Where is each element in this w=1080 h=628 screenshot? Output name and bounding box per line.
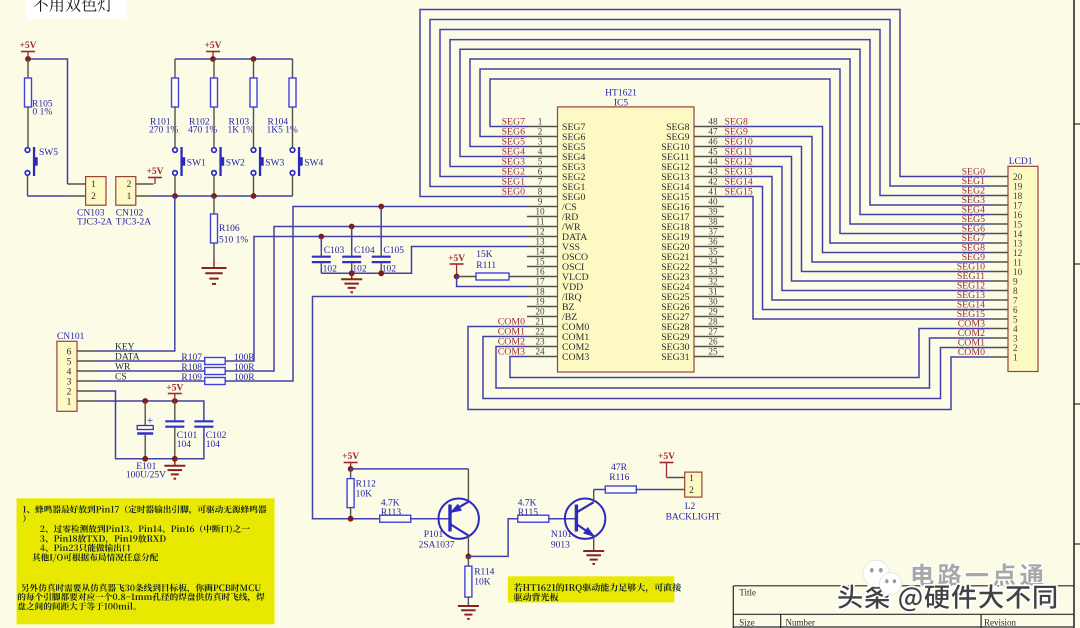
svg-text:5: 5 bbox=[538, 157, 543, 167]
net label SEG15 (LCD1 pin 5) bbox=[957, 309, 985, 320]
op-amp U1 equivalent: IC HT1621 IC5 body bbox=[558, 89, 695, 373]
LCD1 pin 15 bbox=[989, 219, 1023, 229]
svg-text:13: 13 bbox=[535, 237, 545, 247]
svg-text:18: 18 bbox=[535, 287, 545, 297]
HT1621 pin 4 SEG4 bbox=[527, 147, 586, 163]
LCD1 pin 20 bbox=[989, 172, 1023, 182]
wire collector to R115 bbox=[468, 519, 517, 557]
wire CN101 pin1 +5V rail bbox=[97, 401, 204, 421]
net label COM0 (LCD1 pin 1) bbox=[958, 347, 985, 358]
svg-text:5: 5 bbox=[67, 358, 72, 368]
HT1621 pin 20 /BZ bbox=[527, 307, 577, 323]
wire SEG4 (HT1621 pin 4 to LCD pin 16) bbox=[460, 49, 989, 214]
svg-text:R109: R109 bbox=[181, 373, 202, 383]
svg-text:C104: C104 bbox=[354, 246, 375, 256]
junction key bus SW2/R106 bbox=[211, 193, 217, 199]
svg-text:IC5: IC5 bbox=[614, 99, 629, 109]
svg-text:16: 16 bbox=[535, 267, 545, 277]
svg-text:20: 20 bbox=[1013, 172, 1023, 182]
HT1621 pin 31 SEG25 bbox=[661, 287, 724, 303]
HT1621 pin 21 COM0 bbox=[527, 317, 589, 333]
svg-text:18: 18 bbox=[1013, 191, 1023, 201]
wire R115 to N101 base bbox=[549, 518, 577, 520]
HT1621 pin 9 /CS bbox=[527, 197, 577, 213]
connector CN101 bbox=[57, 332, 97, 411]
resistor R107 bbox=[181, 353, 255, 365]
ground (N101) bbox=[583, 551, 604, 564]
resistor R114 bbox=[465, 556, 495, 606]
LCD1 pin 7 bbox=[989, 295, 1018, 305]
svg-text:34: 34 bbox=[708, 257, 718, 267]
net label KEY bbox=[115, 343, 135, 353]
LCD1 pin 18 bbox=[989, 191, 1023, 201]
wire R103 to SW3 bbox=[253, 127, 255, 148]
resistor R111 bbox=[457, 250, 527, 280]
wire SEG8 (HT1621 pin 48 to LCD pin 12) bbox=[724, 127, 989, 253]
svg-text:6: 6 bbox=[1013, 305, 1018, 315]
resistor R116 bbox=[605, 463, 636, 493]
junction +5V rail E101 bbox=[142, 398, 148, 404]
svg-text:44: 44 bbox=[708, 157, 718, 167]
svg-text:COM0: COM0 bbox=[958, 347, 985, 358]
net label COM1 (LCD1 pin 2) bbox=[958, 338, 985, 349]
wire COM1 (HT1621 pin 22 to LCD pin 2) bbox=[483, 337, 989, 399]
switch SW3 bbox=[251, 147, 284, 176]
svg-text:7: 7 bbox=[1013, 295, 1018, 305]
svg-text:45: 45 bbox=[708, 147, 718, 157]
wire R102 to SW2 bbox=[213, 127, 215, 148]
svg-text:Revision: Revision bbox=[984, 618, 1017, 628]
wire SW5 to key bus bbox=[28, 175, 68, 196]
sheet right border bbox=[1073, 0, 1075, 628]
resistor R115 bbox=[518, 499, 549, 523]
title block Size label bbox=[739, 618, 755, 628]
HT1621 pin 8 SEG0 bbox=[527, 187, 586, 203]
svg-text:CN101: CN101 bbox=[57, 332, 85, 342]
junction rail R102 bbox=[210, 56, 216, 62]
junction +5V rail C101 bbox=[172, 398, 178, 404]
junction CS C105 bbox=[378, 204, 384, 210]
net label SEG14 (LCD1 pin 6) bbox=[957, 300, 985, 311]
svg-text:12: 12 bbox=[1013, 248, 1023, 258]
net label SEG6 (HT1621 pin 2) bbox=[502, 127, 526, 138]
HT1621 pin 18 /IRQ bbox=[527, 287, 582, 303]
HT1621 pin 42 SEG14 bbox=[661, 177, 724, 193]
wire KEY (CN101 pin6 to key bus) bbox=[97, 196, 175, 351]
svg-text:Number: Number bbox=[786, 618, 816, 628]
HT1621 pin 48 SEG8 bbox=[666, 117, 724, 133]
HT1621 pin 28 SEG28 bbox=[661, 317, 724, 333]
svg-text:4.7K: 4.7K bbox=[381, 499, 400, 509]
svg-text:COM3: COM3 bbox=[562, 352, 589, 363]
svg-text:1K 1%: 1K 1% bbox=[228, 126, 255, 136]
net label SEG11 (LCD1 pin 9) bbox=[957, 271, 985, 282]
HT1621 pin 24 COM3 bbox=[527, 347, 589, 363]
HT1621 pin 27 SEG29 bbox=[661, 327, 724, 343]
svg-text:21: 21 bbox=[535, 317, 545, 327]
svg-text:7: 7 bbox=[538, 177, 543, 187]
svg-text:1: 1 bbox=[127, 192, 132, 202]
svg-text:22: 22 bbox=[535, 327, 545, 337]
power +5V (E101 rail) bbox=[166, 384, 183, 402]
svg-text:510 1%: 510 1% bbox=[219, 236, 248, 246]
net label SEG6 (LCD1 pin 14) bbox=[962, 224, 986, 235]
LCD1 pin 8 bbox=[989, 286, 1018, 296]
svg-text:11: 11 bbox=[1013, 257, 1022, 267]
ground (R114) bbox=[458, 606, 479, 619]
resistor R101 bbox=[149, 59, 179, 136]
svg-text:+5V: +5V bbox=[448, 254, 465, 264]
svg-text:27: 27 bbox=[708, 327, 718, 337]
transistor Q2 N101 9013 bbox=[551, 499, 605, 551]
resistor R108 bbox=[181, 363, 255, 375]
svg-text:C105: C105 bbox=[383, 246, 404, 256]
wire /IRQ (HT1621 pin18 to R113) bbox=[313, 297, 528, 519]
svg-text:+5V: +5V bbox=[658, 452, 675, 462]
svg-text:9013: 9013 bbox=[551, 541, 570, 551]
svg-text:48: 48 bbox=[708, 117, 718, 127]
net label SEG3 (LCD1 pin 17) bbox=[962, 195, 986, 206]
watermark text gray bbox=[913, 563, 1044, 586]
LCD1 pin 19 bbox=[989, 181, 1023, 191]
switch SW2 bbox=[212, 147, 245, 176]
resistor R113 bbox=[380, 499, 411, 523]
wire VDD +5V bbox=[457, 277, 527, 287]
junction rail R103 bbox=[251, 56, 257, 62]
net label COM1 (HT1621 pin 22) bbox=[498, 327, 525, 338]
svg-text:10K: 10K bbox=[474, 578, 491, 588]
net label SEG0 (HT1621 pin 8) bbox=[502, 187, 526, 198]
svg-text:2: 2 bbox=[538, 127, 543, 137]
HT1621 pin 17 VDD bbox=[527, 277, 583, 293]
LCD1 pin 1 bbox=[989, 352, 1018, 362]
net label SEG2 (HT1621 pin 6) bbox=[502, 167, 526, 178]
svg-text:6: 6 bbox=[67, 348, 72, 358]
svg-text:38: 38 bbox=[708, 217, 718, 227]
wire SEG12 (HT1621 pin 44 to LCD pin 8) bbox=[724, 167, 989, 291]
HT1621 pin 29 SEG27 bbox=[661, 307, 724, 323]
svg-text:2: 2 bbox=[91, 192, 96, 202]
junction +5V R111 bbox=[454, 274, 460, 280]
net label SEG13 (HT1621 pin 43) bbox=[725, 167, 753, 178]
wire R104 to SW4 bbox=[292, 127, 294, 148]
svg-text:15: 15 bbox=[535, 257, 545, 267]
svg-text:R114: R114 bbox=[474, 568, 494, 578]
HT1621 pin 26 SEG30 bbox=[661, 337, 724, 353]
wire SEG7 (HT1621 pin 1 to LCD pin 13) bbox=[490, 79, 989, 243]
net label SEG9 (LCD1 pin 11) bbox=[962, 252, 986, 263]
junction key bus SW3 bbox=[251, 193, 257, 199]
resistor R109 bbox=[181, 373, 255, 385]
wire SEG15 (HT1621 pin 41 to LCD pin 5) bbox=[724, 197, 989, 320]
svg-text:4: 4 bbox=[67, 368, 72, 378]
HT1621 pin 34 SEG22 bbox=[661, 257, 724, 273]
svg-text:P101: P101 bbox=[424, 530, 444, 540]
svg-text:BACKLIGHT: BACKLIGHT bbox=[666, 513, 721, 523]
svg-text:13: 13 bbox=[1013, 238, 1023, 248]
LCD1 pin 12 bbox=[989, 248, 1023, 258]
svg-text:6: 6 bbox=[538, 167, 543, 177]
svg-text:Size: Size bbox=[739, 618, 755, 628]
HT1621 pin 41 SEG15 bbox=[661, 187, 724, 203]
svg-text:L2: L2 bbox=[685, 502, 696, 512]
svg-text:30: 30 bbox=[708, 297, 718, 307]
HT1621 pin 33 SEG23 bbox=[661, 267, 724, 283]
HT1621 pin 15 OSCI bbox=[527, 257, 584, 273]
wire SEG13 (HT1621 pin 43 to LCD pin 7) bbox=[724, 177, 989, 301]
svg-text:SW4: SW4 bbox=[304, 159, 323, 169]
sheet border tick 1 bbox=[1074, 123, 1080, 125]
net label SEG12 (HT1621 pin 44) bbox=[725, 157, 753, 168]
svg-text:37: 37 bbox=[708, 227, 718, 237]
power +5V (R112) bbox=[342, 452, 359, 469]
svg-text:24: 24 bbox=[535, 347, 545, 357]
wire DATA left (CN101 pin5 to R107) bbox=[97, 360, 205, 362]
HT1621 pin 25 SEG31 bbox=[661, 347, 724, 363]
svg-text:8: 8 bbox=[538, 187, 543, 197]
HT1621 pin 43 SEG13 bbox=[661, 167, 724, 183]
HT1621 pin 19 BZ bbox=[527, 297, 575, 313]
HT1621 pin 11 /WR bbox=[527, 217, 581, 233]
title block frame bbox=[733, 586, 1074, 628]
wire COM3 (HT1621 pin 24 to LCD pin 4) bbox=[510, 329, 989, 378]
svg-text:1: 1 bbox=[67, 398, 72, 408]
HT1621 pin 45 SEG11 bbox=[662, 147, 724, 163]
HT1621 pin 40 SEG16 bbox=[661, 197, 724, 213]
svg-text:4: 4 bbox=[1013, 324, 1018, 334]
wire R101 to SW1 bbox=[174, 127, 176, 148]
svg-text:46: 46 bbox=[708, 137, 718, 147]
svg-text:19: 19 bbox=[535, 297, 545, 307]
svg-text:1K5 1%: 1K5 1% bbox=[267, 126, 298, 136]
HT1621 pin 14 OSCO bbox=[527, 247, 588, 263]
HT1621 pin 12 DATA bbox=[527, 227, 587, 243]
svg-text:+5V: +5V bbox=[19, 41, 36, 51]
svg-text:Title: Title bbox=[739, 588, 756, 598]
watermark wechat logo bbox=[863, 560, 901, 598]
power +5V (CN102) bbox=[146, 167, 163, 184]
sheet border tick 3 bbox=[1074, 403, 1080, 405]
watermark text dark bbox=[838, 584, 1056, 611]
wire SEG5 (HT1621 pin 3 to LCD pin 15) bbox=[470, 59, 989, 224]
net label SEG15 (HT1621 pin 41) bbox=[725, 187, 753, 198]
HT1621 pin 10 /RD bbox=[527, 207, 578, 223]
svg-text:36: 36 bbox=[708, 237, 718, 247]
svg-text:+5V: +5V bbox=[204, 41, 221, 51]
svg-text:1: 1 bbox=[91, 180, 96, 190]
svg-text:31: 31 bbox=[708, 287, 718, 297]
wire +5V to R105 and CN103 loop bbox=[28, 59, 68, 184]
net label SEG9 (HT1621 pin 47) bbox=[725, 127, 749, 138]
svg-text:104: 104 bbox=[206, 440, 221, 450]
power +5V (L2) bbox=[658, 452, 675, 478]
net label SEG7 (HT1621 pin 1) bbox=[502, 117, 526, 128]
net label SEG8 (HT1621 pin 48) bbox=[725, 117, 749, 128]
HT1621 pin 46 SEG10 bbox=[661, 137, 724, 153]
net label COM3 (HT1621 pin 24) bbox=[498, 347, 525, 358]
svg-text:4.7K: 4.7K bbox=[518, 499, 537, 509]
transistor Q1 P101 2SA1037 bbox=[419, 499, 479, 551]
wire SEG2 (HT1621 pin 6 to LCD pin 18) bbox=[440, 30, 989, 196]
wire R116 to L2 pin2 bbox=[636, 489, 666, 491]
net label WR bbox=[115, 363, 131, 373]
title note box (no dual-color LED) bbox=[26, 0, 126, 19]
HT1621 pin 47 SEG9 bbox=[666, 127, 724, 143]
svg-text:+5V: +5V bbox=[342, 452, 359, 462]
svg-text:20: 20 bbox=[535, 307, 545, 317]
svg-text:3: 3 bbox=[1013, 333, 1018, 343]
power +5V (R111) bbox=[448, 254, 465, 277]
wire R105 to SW5 bbox=[27, 127, 29, 148]
connector CN102 bbox=[116, 177, 154, 228]
LCD1 pin 13 bbox=[989, 238, 1023, 248]
svg-text:R108: R108 bbox=[181, 363, 202, 373]
HT1621 pin 6 SEG2 bbox=[527, 167, 586, 183]
HT1621 pin 3 SEG5 bbox=[527, 137, 586, 153]
svg-text:15K: 15K bbox=[476, 250, 493, 260]
HT1621 pin 23 COM2 bbox=[527, 337, 589, 353]
net label SEG11 (HT1621 pin 45) bbox=[725, 147, 753, 158]
HT1621 pin 1 SEG7 bbox=[527, 117, 586, 133]
junction +5V R105 bbox=[25, 56, 31, 62]
capacitor C104 bbox=[342, 227, 375, 275]
svg-text:32: 32 bbox=[708, 277, 718, 287]
capacitor E101 bbox=[126, 401, 166, 481]
wire DATA (R107 to HT1621 pin12) bbox=[225, 237, 527, 362]
svg-text:35: 35 bbox=[708, 247, 718, 257]
net label SEG0 (LCD1 pin 20) bbox=[962, 167, 986, 178]
svg-text:47: 47 bbox=[708, 127, 718, 137]
junction gnd rail E101 bbox=[142, 456, 148, 462]
svg-text:R115: R115 bbox=[518, 508, 538, 518]
svg-text:C103: C103 bbox=[324, 246, 345, 256]
wire +5V to P101 emitter bbox=[351, 469, 469, 502]
capacitor C105 bbox=[372, 207, 405, 275]
ground (R106) bbox=[202, 259, 227, 284]
svg-text:4: 4 bbox=[538, 147, 543, 157]
net label SEG4 (HT1621 pin 4) bbox=[502, 147, 526, 158]
svg-text:TJC3-2A: TJC3-2A bbox=[77, 218, 113, 228]
capacitor C103 bbox=[312, 237, 345, 275]
svg-text:104: 104 bbox=[177, 440, 192, 450]
LCD1 pin 11 bbox=[989, 257, 1022, 267]
net label SEG8 (LCD1 pin 12) bbox=[962, 243, 986, 254]
svg-text:17: 17 bbox=[1013, 200, 1023, 210]
svg-text:1: 1 bbox=[1013, 352, 1018, 362]
svg-text:33: 33 bbox=[708, 267, 718, 277]
wire N101 emitter to gnd bbox=[593, 536, 595, 551]
wire SEG0 (HT1621 pin 8 to LCD pin 20) bbox=[420, 10, 989, 197]
wire CS (R109 to HT1621 pin9) bbox=[225, 207, 527, 382]
wire SEG1 (HT1621 pin 7 to LCD pin 19) bbox=[430, 20, 989, 187]
HT1621 pin 7 SEG1 bbox=[527, 177, 586, 193]
svg-text:42: 42 bbox=[708, 177, 718, 187]
HT1621 pin 35 SEG21 bbox=[661, 247, 724, 263]
svg-text:+5V: +5V bbox=[166, 384, 183, 394]
junction +5V R112 bbox=[348, 466, 354, 472]
wire SEG10 (HT1621 pin 46 to LCD pin 10) bbox=[724, 147, 989, 272]
svg-text:41: 41 bbox=[708, 187, 718, 197]
HT1621 pin 38 SEG18 bbox=[661, 217, 724, 233]
resistor R104 bbox=[267, 59, 298, 136]
svg-text:0 1%: 0 1% bbox=[33, 108, 53, 118]
svg-text:2: 2 bbox=[689, 486, 694, 496]
svg-text:+: + bbox=[147, 415, 153, 427]
wire VSS to cap gnd rail bbox=[321, 247, 527, 274]
svg-text:270 1%: 270 1% bbox=[149, 126, 178, 136]
net label SEG3 (HT1621 pin 5) bbox=[502, 157, 526, 168]
svg-text:9: 9 bbox=[538, 197, 543, 207]
net label SEG2 (LCD1 pin 18) bbox=[962, 186, 986, 197]
svg-text:SEG31: SEG31 bbox=[661, 352, 689, 363]
junction gnd rail C101 bbox=[172, 456, 178, 462]
junction WR C104 bbox=[349, 224, 355, 230]
svg-text:26: 26 bbox=[708, 337, 718, 347]
svg-text:43: 43 bbox=[708, 167, 718, 177]
title block Title label bbox=[739, 588, 756, 598]
LCD1 pin 2 bbox=[989, 343, 1018, 353]
LCD1 pin 10 bbox=[989, 267, 1023, 277]
HT1621 pin 44 SEG12 bbox=[661, 157, 724, 173]
HT1621 pin 30 SEG26 bbox=[661, 297, 724, 313]
sheet border tick 2 bbox=[1074, 263, 1080, 265]
LCD1 pin 9 bbox=[989, 276, 1018, 286]
note box 1 (simulation notes) bbox=[17, 498, 275, 624]
wire WR (R108 to HT1621 pin11) bbox=[225, 227, 527, 372]
svg-text:17: 17 bbox=[535, 277, 545, 287]
svg-text:+5V: +5V bbox=[146, 167, 163, 177]
HT1621 pin 36 SEG20 bbox=[661, 237, 724, 253]
svg-text:25: 25 bbox=[708, 347, 718, 357]
HT1621 pin 5 SEG3 bbox=[527, 157, 586, 173]
note box 2 (backlight note) bbox=[508, 576, 681, 602]
net label SEG5 (LCD1 pin 15) bbox=[962, 214, 986, 225]
svg-text:3: 3 bbox=[538, 137, 543, 147]
resistor R112 bbox=[347, 469, 376, 519]
svg-text:HT1621: HT1621 bbox=[605, 89, 637, 99]
svg-text:SW2: SW2 bbox=[226, 159, 245, 169]
wire SW1 to key bus bbox=[174, 175, 176, 196]
svg-text:1: 1 bbox=[538, 117, 543, 127]
wire SW2 to key bus bbox=[213, 175, 215, 196]
LCD1 pin 6 bbox=[989, 305, 1018, 315]
svg-text:2: 2 bbox=[67, 388, 72, 398]
connector CN103 bbox=[68, 177, 113, 228]
net label SEG5 (HT1621 pin 3) bbox=[502, 137, 526, 148]
svg-text:10: 10 bbox=[535, 207, 545, 217]
HT1621 pin 22 COM1 bbox=[527, 327, 589, 343]
HT1621 pin 16 VLCD bbox=[527, 267, 589, 283]
sheet border tick 4 bbox=[1074, 543, 1080, 545]
power +5V (R101-R104 rail) bbox=[204, 41, 221, 59]
LCD1 pin 3 bbox=[989, 333, 1018, 343]
net label DATA bbox=[115, 353, 140, 363]
junction cap gnd rail C105 bbox=[378, 270, 384, 276]
svg-text:3: 3 bbox=[67, 378, 72, 388]
svg-text:1: 1 bbox=[689, 474, 694, 484]
title block Revision label bbox=[984, 618, 1017, 628]
svg-text:LCD1: LCD1 bbox=[1009, 157, 1033, 167]
net label COM3 (LCD1 pin 4) bbox=[958, 319, 985, 330]
resistor R102 bbox=[188, 59, 218, 136]
svg-text:11: 11 bbox=[536, 217, 545, 227]
net label CS bbox=[115, 373, 127, 383]
svg-text:R106: R106 bbox=[219, 224, 240, 234]
net label SEG14 (HT1621 pin 42) bbox=[725, 177, 753, 188]
junction R112 IRQ base bbox=[348, 516, 354, 522]
svg-text:2: 2 bbox=[1013, 343, 1018, 353]
ground (cap rail) bbox=[341, 273, 362, 292]
